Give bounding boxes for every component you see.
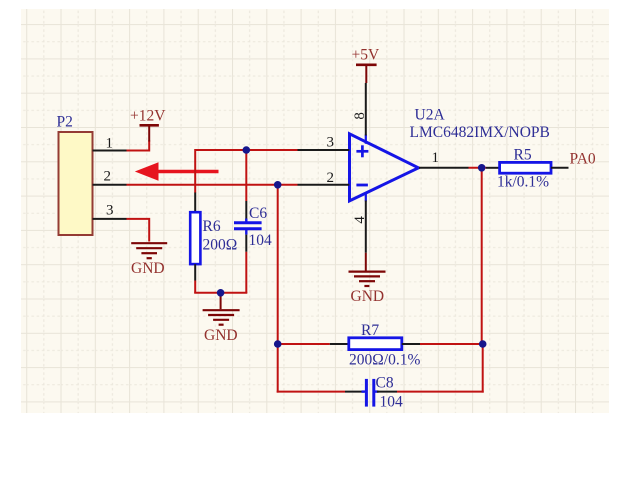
wire feedback right vertical xyxy=(481,168,483,344)
resistor R6 xyxy=(190,193,200,281)
wire C6 bottom drop xyxy=(245,252,247,293)
svg-text:1: 1 xyxy=(432,150,440,166)
capacitor C6 xyxy=(234,201,262,252)
junction output node xyxy=(478,164,486,172)
svg-text:R5: R5 xyxy=(514,146,532,163)
op-amp pin 2 stub xyxy=(298,184,350,186)
wire C8 right xyxy=(397,391,484,393)
wire output node xyxy=(469,167,487,169)
resistor R5 xyxy=(486,162,569,173)
svg-text:U2A: U2A xyxy=(415,107,446,124)
sheet background xyxy=(21,9,609,413)
svg-text:GND: GND xyxy=(131,260,165,277)
wire pin3 to ground xyxy=(127,219,150,242)
wire C8 left xyxy=(277,391,345,393)
wire pin1 to +12V xyxy=(127,141,150,151)
wire non-inverting input net xyxy=(195,150,297,193)
ground GND1 (P2 pin3) xyxy=(131,243,167,258)
P2 pin 1 xyxy=(93,150,127,152)
wire C8 right vertical xyxy=(482,343,484,393)
wire C8 left vertical xyxy=(277,343,279,393)
op-amp pin 3 stub xyxy=(298,149,350,151)
op-amp U2A xyxy=(350,134,419,202)
wire R6 bottom drop xyxy=(194,281,196,293)
wire RC bottom node xyxy=(194,292,247,294)
svg-text:200Ω/0.1%: 200Ω/0.1% xyxy=(349,352,420,369)
svg-text:R6: R6 xyxy=(203,218,221,235)
svg-text:1: 1 xyxy=(106,135,114,151)
svg-text:+5V: +5V xyxy=(352,47,380,64)
wire pin2 to op-amp inverting input xyxy=(127,184,298,186)
svg-text:C6: C6 xyxy=(249,205,267,222)
wire R7 left xyxy=(278,343,330,345)
svg-text:1k/0.1%: 1k/0.1% xyxy=(497,173,549,190)
svg-text:3: 3 xyxy=(106,203,114,219)
svg-text:4: 4 xyxy=(352,216,368,224)
resistor R7 xyxy=(330,338,420,350)
svg-text:8: 8 xyxy=(352,112,368,120)
svg-text:200Ω: 200Ω xyxy=(203,237,238,254)
wire C6 top drop xyxy=(245,150,247,201)
connector P2 xyxy=(59,132,93,235)
P2 pin 2 xyxy=(93,184,127,186)
svg-text:R7: R7 xyxy=(361,322,379,339)
junction R7 right xyxy=(479,340,487,348)
svg-text:+12V: +12V xyxy=(130,108,166,125)
P2 pin 3 xyxy=(93,218,127,220)
junction RC bottom node xyxy=(217,289,225,297)
power symbol +5V xyxy=(356,65,377,83)
op-amp pin 1 output stub xyxy=(419,167,469,169)
svg-text:104: 104 xyxy=(380,393,404,410)
junction at C6 top xyxy=(243,146,251,154)
ground GND3 (op-amp pin 4) xyxy=(349,253,386,286)
svg-text:104: 104 xyxy=(249,232,273,249)
svg-text:LMC6482IMX/NOPB: LMC6482IMX/NOPB xyxy=(410,124,550,141)
capacitor C8 xyxy=(345,379,397,407)
wire feedback left vertical xyxy=(277,185,279,344)
junction on pin2 net xyxy=(274,181,282,189)
power symbol +12V xyxy=(140,125,159,141)
ground GND2 (below R6/C6) xyxy=(203,293,240,325)
junction R7 left xyxy=(274,340,282,348)
svg-text:3: 3 xyxy=(327,135,335,151)
direction arrow xyxy=(135,162,219,180)
svg-text:2: 2 xyxy=(327,170,335,186)
svg-text:GND: GND xyxy=(351,288,385,305)
op-amp pin 8 stub xyxy=(365,83,367,136)
svg-text:PA0: PA0 xyxy=(570,151,596,168)
svg-text:2: 2 xyxy=(104,169,112,185)
svg-text:GND: GND xyxy=(204,327,238,344)
svg-text:P2: P2 xyxy=(57,114,73,131)
op-amp pin 4 stub xyxy=(365,201,367,253)
svg-text:C8: C8 xyxy=(376,375,394,392)
wire R7 right xyxy=(420,343,483,345)
